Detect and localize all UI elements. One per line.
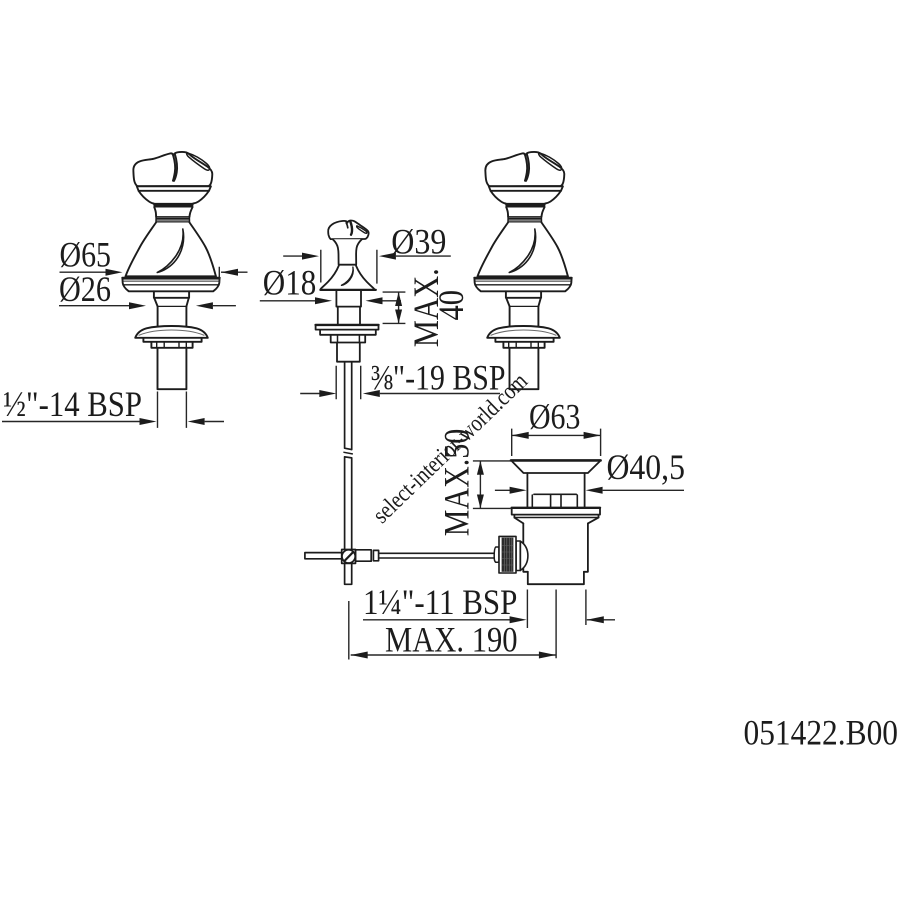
ring collar (156, 219, 189, 223)
valve handle right (tap head) (474, 152, 571, 389)
bell body (126, 223, 216, 277)
cartridge cylinder (337, 343, 360, 362)
arrowheads 114-11BSP (510, 616, 527, 623)
valve handle left (tap head) (122, 152, 219, 389)
taper to body (514, 518, 598, 524)
arrowheads Ø18 (315, 297, 332, 304)
drain lower body (523, 523, 588, 571)
ring under dome (143, 338, 201, 342)
base plate (122, 277, 219, 279)
arrowheads 38-19BSP (319, 390, 336, 397)
small base line (320, 289, 375, 291)
arrowheads Ø39 (302, 253, 319, 260)
dim Ø39 lines (283, 250, 451, 284)
bowl (139, 191, 209, 204)
sink collar (512, 507, 600, 509)
dim Ø63 lines (512, 429, 601, 456)
cap washer (516, 541, 520, 571)
dim 38-19BSP lines (300, 366, 500, 399)
threaded shank (158, 348, 187, 389)
svg-text:40: 40 (431, 290, 471, 321)
pull rod lower segment (345, 457, 352, 585)
dim MAX190 lines (349, 590, 556, 660)
bell swirl (157, 229, 183, 273)
cap dome (520, 541, 528, 570)
svg-text:Ø26: Ø26 (59, 269, 111, 309)
small bell swirl (342, 267, 354, 285)
svg-text:051422.B00: 051422.B00 (744, 713, 899, 753)
svg-text:½"-14 BSP: ½"-14 BSP (3, 384, 142, 424)
rod end collar (494, 547, 499, 562)
tailpiece (528, 572, 584, 584)
small knob neck (333, 239, 362, 264)
knob crescent (187, 153, 210, 171)
pull rod upper segment (345, 362, 352, 450)
small knob crease (346, 223, 348, 228)
dome flange (135, 326, 208, 338)
horizontal lift rod left part (305, 553, 342, 559)
small knob crescent (357, 226, 367, 233)
watermark (368, 368, 533, 529)
pop-up waste control knob (316, 220, 379, 584)
dim Ø26 lines (59, 305, 236, 307)
svg-text:Ø39: Ø39 (391, 222, 446, 262)
pop-up waste drain body (494, 460, 600, 584)
arrowheads half-14BSP (140, 418, 157, 425)
svg-text:Ø18: Ø18 (263, 263, 317, 303)
arrowheads Ø63 (512, 432, 529, 439)
threaded collar (151, 342, 192, 348)
svg-text:MAX.50: MAX.50 (436, 429, 476, 536)
dim Ø18 lines (260, 300, 401, 302)
bell bottom rim (126, 275, 216, 277)
collar disc (137, 186, 211, 191)
drain flange (top hat) (511, 459, 601, 462)
small ring (373, 550, 378, 560)
drain upper body (527, 473, 584, 507)
arrowheads MAX190 (351, 652, 368, 659)
hex nut (331, 335, 366, 343)
svg-text:Ø40,5: Ø40,5 (607, 447, 686, 487)
svg-text:MAX. 190: MAX. 190 (385, 619, 518, 659)
horizontal rod to drain (379, 553, 496, 558)
arrowheads Ø40,5 (510, 487, 527, 494)
dim Ø65 lines (60, 267, 248, 283)
knob blob (133, 152, 212, 186)
sleeve (356, 550, 372, 561)
knurled coupling nut (499, 536, 516, 573)
dim MAX40 lines (383, 292, 406, 323)
arrowheads Ø65 (106, 269, 123, 276)
washer plate top (316, 324, 379, 326)
arrowheads MAX40 (395, 292, 402, 306)
neck (154, 207, 192, 217)
bowl band shading (154, 204, 194, 207)
stem (158, 305, 187, 307)
svg-text:⅜"-19 BSP: ⅜"-19 BSP (371, 357, 506, 397)
lower stem (338, 307, 360, 325)
small bell flare (321, 266, 375, 290)
dim 114-11BSP lines (363, 590, 615, 629)
arrowheads Ø26 (129, 302, 146, 309)
arrowheads MAX50 (477, 461, 484, 475)
clamp block with screw (342, 550, 356, 564)
rod break marks (344, 452, 352, 454)
knob crease (173, 154, 177, 181)
upper stem (336, 291, 361, 307)
small knob blob (328, 220, 368, 239)
stem collar (154, 291, 189, 306)
svg-text:Ø63: Ø63 (529, 397, 580, 437)
dim Ø40,5 lines (495, 489, 684, 491)
pop-up plug cage (532, 494, 577, 507)
dim MAX50 lines (473, 461, 511, 509)
dim half-14BSP lines (2, 392, 224, 428)
dimension annotations (2, 250, 684, 660)
linkage rods (305, 550, 496, 564)
svg-text:1¼"-11 BSP: 1¼"-11 BSP (363, 582, 517, 622)
